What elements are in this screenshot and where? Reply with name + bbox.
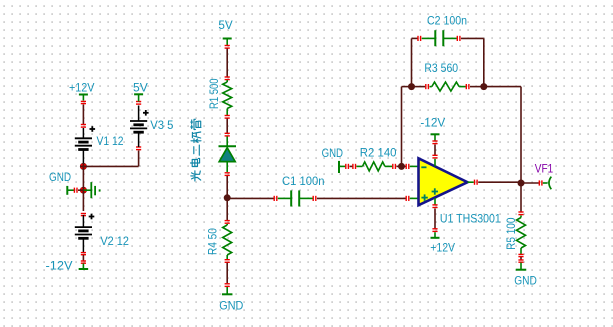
svg-text:C1 100n: C1 100n — [282, 176, 325, 188]
svg-text:GND: GND — [49, 172, 71, 184]
svg-text:C2 100n: C2 100n — [427, 16, 467, 28]
svg-text:5V: 5V — [218, 20, 233, 32]
svg-text:GND: GND — [219, 300, 243, 312]
svg-text:R3 560: R3 560 — [424, 63, 458, 75]
svg-text:GND: GND — [322, 148, 343, 160]
svg-text:-12V: -12V — [46, 260, 73, 272]
svg-text:5V: 5V — [133, 82, 148, 94]
svg-text:-12V: -12V — [420, 117, 445, 129]
svg-text:+12V: +12V — [69, 83, 95, 95]
svg-text:R1 500: R1 500 — [209, 78, 221, 109]
svg-text:V3 5: V3 5 — [150, 120, 173, 132]
svg-text:R5 100: R5 100 — [506, 217, 518, 249]
svg-text:VF1: VF1 — [535, 164, 553, 176]
svg-text:GND: GND — [514, 276, 537, 288]
svg-text:V2 12: V2 12 — [100, 236, 128, 248]
svg-text:V1 12: V1 12 — [97, 136, 124, 148]
svg-text:U1 THS3001: U1 THS3001 — [440, 213, 501, 225]
svg-text:+12V: +12V — [430, 242, 455, 254]
svg-text:R2 140: R2 140 — [360, 147, 397, 159]
svg-text:R4 50: R4 50 — [208, 228, 220, 255]
